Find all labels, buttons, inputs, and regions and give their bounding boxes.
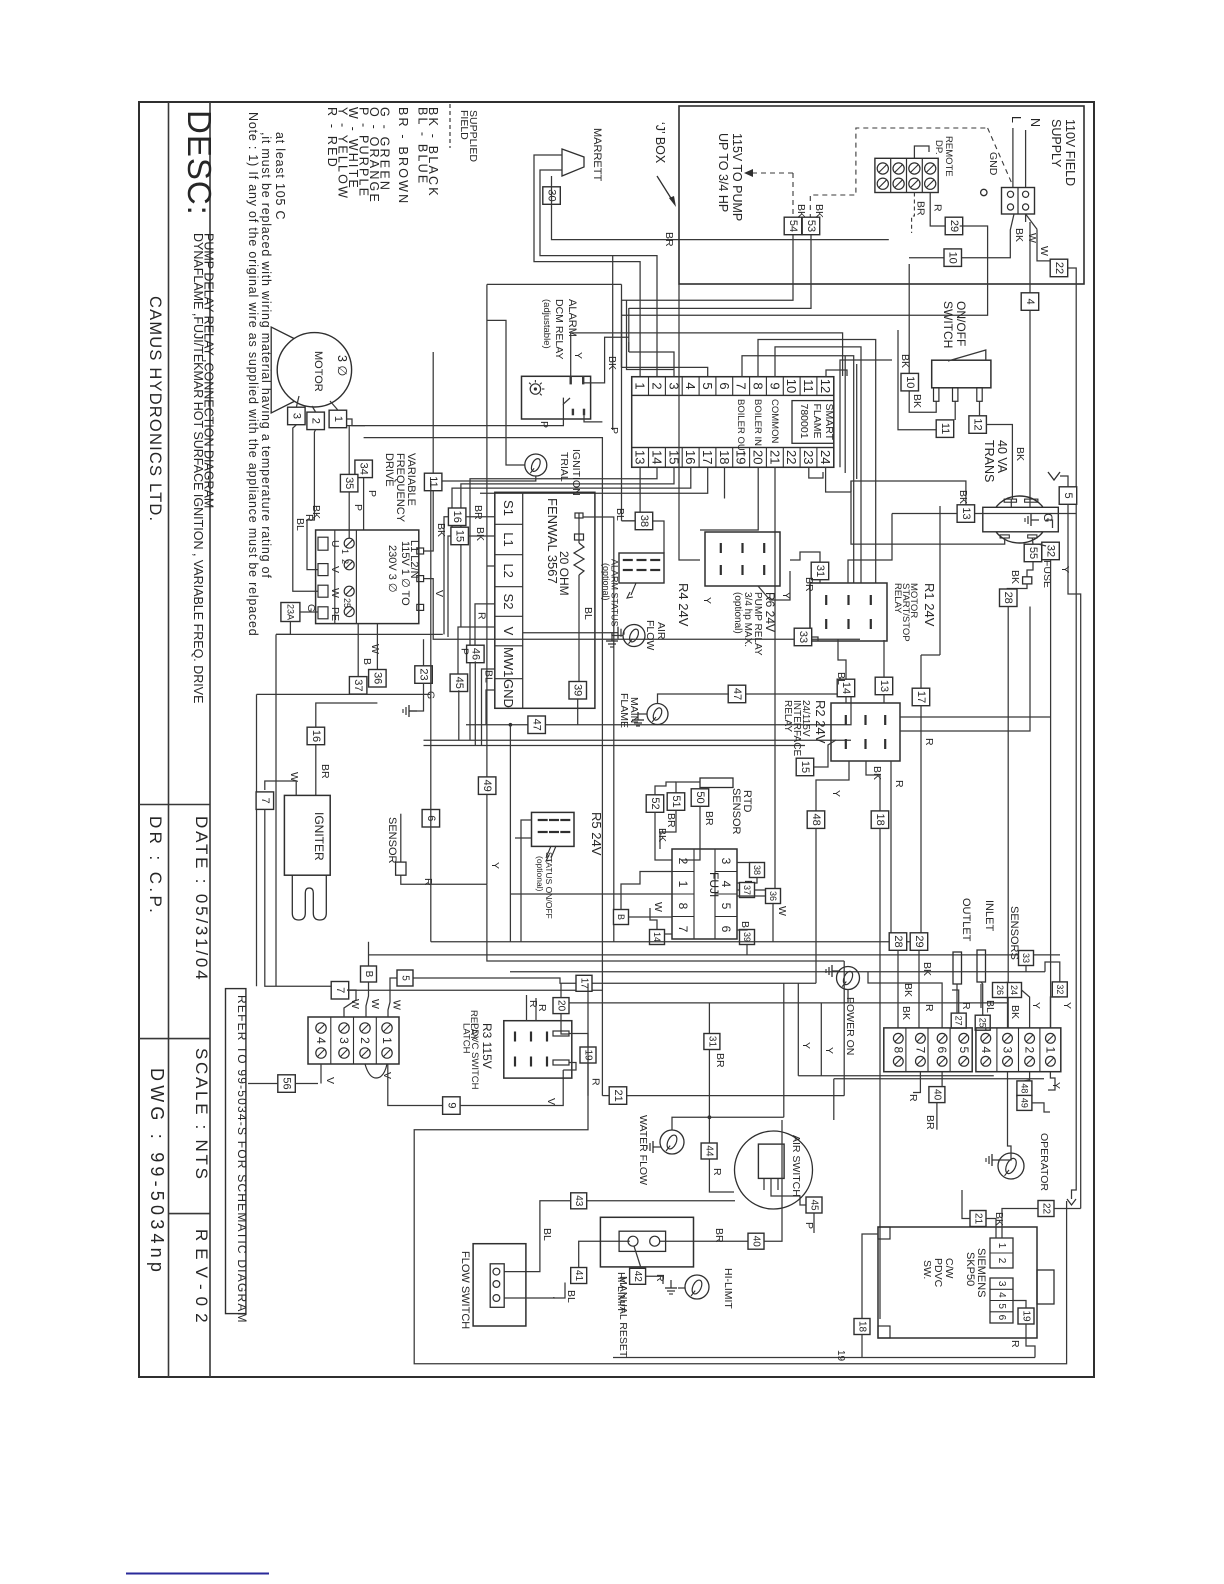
svg-text:1: 1 <box>340 549 350 554</box>
svg-text:R: R <box>654 1274 666 1282</box>
wire 35 up <box>348 426 350 475</box>
svg-text:1: 1 <box>676 881 690 888</box>
wire ignition bottom <box>433 475 536 481</box>
svg-text:‘J’ BOX: ‘J’ BOX <box>653 122 667 164</box>
junction box 30 (marrett) <box>543 187 561 205</box>
svg-text:31: 31 <box>814 565 826 577</box>
svg-text:R3 115V: R3 115V <box>480 1023 494 1069</box>
junction box 28 (fuse) <box>1000 589 1018 607</box>
bottom enclosure boundary <box>414 983 1066 1364</box>
junction box 11 (switch) <box>936 420 954 438</box>
wire r1 bk top <box>848 514 892 584</box>
wire 23 link <box>423 639 425 666</box>
resistor top lead <box>578 513 580 519</box>
junction box 37 (fuji) <box>740 883 755 898</box>
wire motor t1 stub <box>330 401 338 410</box>
svg-text:(adjustable): (adjustable) <box>541 299 552 349</box>
svg-text:25: 25 <box>978 1018 988 1028</box>
svg-text:P: P <box>459 648 471 655</box>
svg-text:42: 42 <box>632 1271 643 1283</box>
svg-text:6: 6 <box>717 382 732 389</box>
outlet sensor body <box>953 952 962 984</box>
junction box 31 (bottom) <box>704 1034 720 1050</box>
alarm relay pin t1 <box>570 376 572 384</box>
siemens corner square 2 <box>878 1326 890 1338</box>
Y pickoff arrow <box>1048 472 1060 480</box>
motor horn <box>271 327 295 413</box>
svg-text:REV-02: REV-02 <box>192 1229 211 1330</box>
vfd terminal W <box>318 585 328 597</box>
svg-text:16: 16 <box>683 450 698 464</box>
svg-text:N: N <box>1028 118 1042 127</box>
svg-text:BR: BR <box>713 1228 725 1243</box>
svg-text:SW.: SW. <box>921 1260 933 1279</box>
svg-text:W: W <box>369 999 381 1009</box>
WATER FLOW lamp <box>660 1130 684 1154</box>
wire 17 r2 <box>920 655 922 688</box>
switch pin 2 <box>953 388 958 402</box>
svg-text:48: 48 <box>810 813 822 825</box>
wire r2 r down <box>890 761 892 942</box>
wire 19 bottom run <box>613 1357 1035 1359</box>
svg-text:BR: BR <box>803 577 815 592</box>
svg-text:BK: BK <box>656 828 668 842</box>
wire vfd V out <box>424 579 860 640</box>
ignition trial lamp <box>525 454 547 476</box>
svg-text:W: W <box>1038 246 1050 256</box>
svg-text:23: 23 <box>801 450 816 464</box>
svg-text:V: V <box>545 1098 557 1105</box>
wire 14 in <box>838 639 846 679</box>
wire 43 run <box>587 1200 735 1202</box>
wire 16 left <box>444 517 448 635</box>
wire 8 fuji <box>629 916 673 919</box>
svg-text:R: R <box>923 738 935 746</box>
svg-text:R: R <box>907 1094 919 1102</box>
svg-text:12: 12 <box>818 379 833 393</box>
motor circle <box>277 333 351 407</box>
svg-text:45: 45 <box>809 1199 820 1211</box>
refer to box <box>226 989 246 1314</box>
wire motor t3 stub <box>296 396 299 407</box>
vfd screw 2 <box>344 560 354 570</box>
junction box 32 (sensors) <box>1052 982 1067 997</box>
igniter body <box>284 795 330 875</box>
wire motor t2 stub <box>312 406 316 412</box>
svg-text:28: 28 <box>1002 592 1014 604</box>
junction box 55 <box>1024 544 1042 562</box>
wire r5 bottom <box>515 837 532 839</box>
junction box 49 <box>478 777 496 795</box>
wire x833 down <box>833 1079 835 1120</box>
svg-text:3: 3 <box>1001 1046 1015 1053</box>
svg-text:18: 18 <box>717 450 732 464</box>
svg-text:BL: BL <box>483 670 495 683</box>
svg-text:BR - BROWN: BR - BROWN <box>396 107 410 205</box>
wire y right link <box>883 640 885 655</box>
wire 16 to igniter <box>315 745 317 796</box>
svg-text:BR: BR <box>319 764 331 779</box>
j-box terminal screws <box>877 163 888 174</box>
svg-text:SUPPLIED: SUPPLIED <box>467 110 479 162</box>
wire 31 in <box>819 580 821 583</box>
svg-text:11: 11 <box>801 379 816 393</box>
wire 29 to onoff feed <box>622 226 988 315</box>
wire motor 3 to W <box>293 425 318 591</box>
on/off switch lever <box>948 350 986 361</box>
junction box 16 (fenwal) <box>448 508 466 526</box>
wire alarm b2 to P2 <box>584 415 602 422</box>
svg-text:BK - BLACK: BK - BLACK <box>426 107 440 198</box>
svg-text:FLAME: FLAME <box>811 404 823 439</box>
wire sf cell16 down <box>452 467 691 536</box>
wire 7 drop <box>265 781 273 790</box>
wire 45 down <box>458 690 460 740</box>
vfd inner divider 1 <box>334 530 336 624</box>
fenwal outer box <box>495 492 595 708</box>
vfd terminal V <box>318 564 328 576</box>
bus h954 <box>368 954 1060 956</box>
svg-text:OPERATOR: OPERATOR <box>1038 1133 1050 1191</box>
junction box 14 (r2) <box>837 679 855 697</box>
svg-text:32: 32 <box>1055 984 1065 994</box>
svg-text:19: 19 <box>835 1350 846 1362</box>
bus h1002 <box>560 1002 1008 1004</box>
right bus 1 <box>1071 1195 1073 1199</box>
svg-text:BOILER IN: BOILER IN <box>752 399 763 446</box>
fuse body <box>1023 577 1032 584</box>
junction box 56 <box>278 1075 296 1093</box>
wire Y arrow to 5 <box>1060 476 1068 487</box>
svg-text:W: W <box>652 902 664 912</box>
wire sf cell 7 up <box>742 356 854 583</box>
smart flame top row <box>632 377 834 396</box>
svg-text:W: W <box>1026 233 1038 243</box>
wire igniter W <box>273 781 296 795</box>
svg-text:10: 10 <box>904 376 916 388</box>
wire motor 1 right <box>347 419 366 426</box>
transformer top pin 1 <box>1004 499 1016 502</box>
sensor outlet lead <box>956 984 958 1013</box>
transformer top pin 2 <box>1025 499 1038 502</box>
svg-text:IGNITION: IGNITION <box>570 449 582 496</box>
svg-text:BR: BR <box>703 811 715 826</box>
svg-text:P: P <box>538 421 550 428</box>
sensor inlet lead <box>980 984 982 1008</box>
FLOW SWITCH box <box>473 1244 526 1326</box>
svg-text:5: 5 <box>957 1046 971 1053</box>
svg-text:8: 8 <box>750 382 765 389</box>
wire W to 22 <box>1037 229 1051 261</box>
wire 13 feed <box>851 481 1005 544</box>
vfd terminal U <box>318 537 328 550</box>
wire W to 4 <box>1029 222 1031 499</box>
terminal strip screws <box>893 1033 903 1043</box>
wire 14 fuji <box>665 933 673 935</box>
svg-text:REFER TO 99-5034-S FOR SCHEMAT: REFER TO 99-5034-S FOR SCHEMATIC DIAGRAM <box>235 995 249 1324</box>
vfd screw 3 <box>344 586 354 596</box>
wire 16 to S1 <box>466 516 495 518</box>
svg-text:15: 15 <box>454 530 466 542</box>
svg-text:24: 24 <box>818 450 833 464</box>
junction box 21 (siemens) <box>970 1211 986 1227</box>
svg-text:3 ∅: 3 ∅ <box>335 355 349 376</box>
svg-text:2: 2 <box>340 559 350 564</box>
svg-text:SKP50: SKP50 <box>964 1252 976 1286</box>
svg-text:38: 38 <box>638 515 650 527</box>
wire y vert 1 <box>797 983 799 1076</box>
svg-text:2: 2 <box>1023 1046 1037 1053</box>
svg-text:L2: L2 <box>501 563 516 577</box>
svg-text:21: 21 <box>767 450 782 464</box>
svg-text:36: 36 <box>768 891 778 901</box>
wire supply L <box>1012 128 1014 188</box>
wire pin2 to 11 <box>954 401 956 420</box>
svg-text:B: B <box>361 658 373 665</box>
svg-text:48: 48 <box>1019 1083 1029 1093</box>
wire r6 feed <box>679 284 700 560</box>
wire sf cell 8 up <box>758 340 876 584</box>
disconnect screws <box>1007 191 1013 197</box>
motor terminal 2 <box>307 412 325 430</box>
wire sf right risers <box>840 360 892 467</box>
svg-text:Y: Y <box>823 1047 835 1054</box>
junction box 12 (switch) <box>969 416 987 434</box>
vfd outer box <box>316 530 419 624</box>
junction box B (strip) <box>361 966 377 982</box>
siemens terminal 3-6 <box>990 1278 1013 1323</box>
flow switch strip <box>490 1264 504 1308</box>
wire 22 to right bus <box>1068 268 1076 1195</box>
svg-text:1: 1 <box>633 382 648 389</box>
svg-text:BR: BR <box>924 1115 936 1130</box>
svg-text:R: R <box>932 204 944 212</box>
svg-text:29: 29 <box>913 935 925 947</box>
svg-text:53: 53 <box>805 220 817 232</box>
svg-text:Y: Y <box>572 352 584 359</box>
junction box 8 (fuji) <box>614 910 629 925</box>
R3 right pin bottom <box>553 1060 569 1065</box>
junction box 15 (fenwal) <box>451 527 469 545</box>
wire 51 link <box>676 782 700 793</box>
svg-text:24: 24 <box>1009 985 1019 995</box>
svg-text:L1: L1 <box>501 532 516 546</box>
wire trans to 55/32 <box>1031 538 1034 544</box>
siemens terminal 1-2 <box>990 1238 1013 1268</box>
svg-text:B: B <box>739 921 751 928</box>
fenwal left stub L2 <box>487 565 495 567</box>
junction box 53 <box>802 217 820 235</box>
wire c5 up <box>963 1027 965 1029</box>
vfd right pin L1 <box>417 548 424 554</box>
svg-text:DP.: DP. <box>933 140 944 155</box>
transformer ground symbol <box>1031 519 1039 521</box>
svg-text:U: U <box>329 540 341 548</box>
wire 9 right <box>460 1070 563 1106</box>
svg-text:17: 17 <box>700 450 715 464</box>
wire marrett inner <box>540 170 657 377</box>
R3 right pin top <box>553 1031 569 1036</box>
wire mr right <box>660 1240 748 1242</box>
svg-text:11: 11 <box>939 423 951 434</box>
vfd inner divider 2 <box>355 530 357 624</box>
svg-text:BK: BK <box>606 356 618 370</box>
svg-text:1: 1 <box>996 1243 1007 1249</box>
svg-text:45: 45 <box>453 677 465 689</box>
junction box 19 (r3) <box>580 1047 596 1063</box>
svg-text:3: 3 <box>290 413 302 419</box>
wire sf cell20 down <box>700 467 758 530</box>
svg-text:B: B <box>616 914 626 920</box>
bus h745 <box>424 745 806 747</box>
svg-text:1: 1 <box>1043 1046 1057 1053</box>
bus h990 <box>347 989 602 991</box>
wire 48/49 link <box>1024 1072 1029 1081</box>
wire R terminal to 29 <box>930 193 948 227</box>
svg-text:5: 5 <box>700 382 715 389</box>
svg-text:7: 7 <box>676 926 690 933</box>
svg-text:Y: Y <box>800 1042 812 1049</box>
junction box 40 (mr) <box>748 1233 764 1249</box>
wire motor 2 to V <box>307 430 318 570</box>
svg-text:6: 6 <box>996 1315 1007 1321</box>
bus h983 <box>413 978 816 983</box>
svg-text:L: L <box>1009 116 1023 123</box>
junction box 44 <box>701 1143 717 1159</box>
junction box 7 (bottom) <box>331 982 349 1000</box>
svg-text:DATE : 05/31/04: DATE : 05/31/04 <box>192 816 211 982</box>
svg-text:14: 14 <box>649 450 664 464</box>
svg-text:SENSOR: SENSOR <box>386 817 398 864</box>
wire 36 fuji <box>737 895 766 897</box>
wire 23A down <box>276 622 290 635</box>
wire 35 down <box>348 492 350 538</box>
svg-text:V: V <box>381 1072 393 1079</box>
wire y49 down <box>1032 1103 1050 1112</box>
svg-text:W: W <box>776 906 788 916</box>
wire 5 down Y <box>1068 504 1081 1203</box>
wire 36 up <box>376 624 378 670</box>
svg-text:PE: PE <box>329 607 341 621</box>
svg-text:20: 20 <box>750 450 765 464</box>
dashed diagonal to disconnect <box>988 128 1013 186</box>
wire 18 siemens <box>862 1234 878 1319</box>
bus vertical x486.9 <box>486 284 488 884</box>
junction box 47 (r2) <box>728 685 746 703</box>
junction box 14 (fuji) <box>650 930 665 945</box>
fenwal left stub MW1 <box>482 669 495 746</box>
svg-text:40 VA: 40 VA <box>995 440 1009 474</box>
HI-LIMIT lamp <box>685 1275 709 1299</box>
bus h941 <box>431 941 921 943</box>
junction box 51 <box>667 793 685 811</box>
terminal strip group B (4-1) <box>976 1028 1061 1072</box>
vfd screw 4 <box>344 607 354 617</box>
svg-text:BK: BK <box>435 523 447 537</box>
title block divider REV row <box>169 1213 211 1215</box>
wire ignition left <box>487 320 525 465</box>
wire r2 bk down <box>866 761 880 811</box>
alarm dcm relay box <box>522 376 591 419</box>
svg-text:FLAME: FLAME <box>618 693 630 728</box>
svg-text:BK: BK <box>911 394 923 408</box>
svg-text:R: R <box>893 780 905 788</box>
alarm relay dial <box>530 384 540 394</box>
svg-text:4: 4 <box>996 1292 1007 1298</box>
svg-text:2: 2 <box>310 418 322 424</box>
svg-text:7: 7 <box>334 987 346 993</box>
svg-text:WATER FLOW: WATER FLOW <box>637 1115 649 1185</box>
wire 42 to gnd <box>646 1276 663 1284</box>
svg-text:56: 56 <box>281 1077 293 1089</box>
fuse leads <box>1027 562 1033 577</box>
junction box 42 <box>630 1268 646 1284</box>
switch pin 3 <box>977 388 982 402</box>
svg-text:52: 52 <box>649 797 661 809</box>
svg-text:19: 19 <box>1021 1310 1032 1322</box>
wire alarm Y <box>571 333 843 376</box>
svg-text:MW1: MW1 <box>501 647 516 677</box>
sensor lead <box>400 814 402 862</box>
svg-text:5: 5 <box>996 1303 1007 1309</box>
svg-text:TRANS: TRANS <box>982 440 996 482</box>
svg-text:Y: Y <box>830 790 842 797</box>
junction box 45 (v) <box>450 674 468 692</box>
svg-text:16: 16 <box>310 730 322 742</box>
wire BK left drop <box>898 330 936 430</box>
svg-text:G: G <box>305 604 317 612</box>
wire pin3 to 12 <box>979 401 981 415</box>
wire 38 run <box>622 520 636 522</box>
title block divider DATE row <box>139 804 210 806</box>
junction box 21 (r3) <box>609 1087 627 1105</box>
junction box 50 <box>691 789 709 807</box>
svg-text:35: 35 <box>343 477 355 489</box>
small strip screws <box>316 1023 326 1033</box>
wire sf top bundle b <box>627 300 675 370</box>
svg-text:55: 55 <box>1027 547 1039 559</box>
wire operator <box>998 1153 1011 1160</box>
junction box 46 <box>467 645 485 663</box>
svg-text:34: 34 <box>358 463 370 475</box>
wire main flame <box>638 712 647 714</box>
svg-text:V: V <box>329 566 341 573</box>
svg-text:BK: BK <box>902 983 914 997</box>
v loop under strip <box>365 1064 387 1078</box>
wire branch 612 <box>612 256 614 430</box>
gnd 23 <box>409 710 417 712</box>
svg-text:26: 26 <box>995 985 1005 995</box>
svg-text:230V 3 ∅: 230V 3 ∅ <box>386 545 398 593</box>
wire 33 link <box>812 637 818 641</box>
wire fenwal V to gnd <box>523 632 610 634</box>
svg-text:Y: Y <box>1059 566 1071 573</box>
junction box 22 <box>1050 259 1068 277</box>
wire BR terminal drop <box>912 193 915 234</box>
junction box 36 (fuji) <box>766 889 781 904</box>
wire resistor to 39 <box>578 588 580 681</box>
svg-text:POWER ON: POWER ON <box>844 997 856 1055</box>
wire 23A to PE <box>300 611 318 613</box>
bus vertical x430.8 <box>430 481 432 942</box>
siemens W arrow <box>1067 1199 1076 1205</box>
svg-text:BK: BK <box>795 204 807 218</box>
wire 11 to L1 <box>424 491 434 551</box>
air switch pins <box>763 1178 765 1190</box>
transformer body <box>992 496 1047 543</box>
svg-text:TRIAL: TRIAL <box>558 452 570 482</box>
wire 39 fuji <box>737 929 747 932</box>
